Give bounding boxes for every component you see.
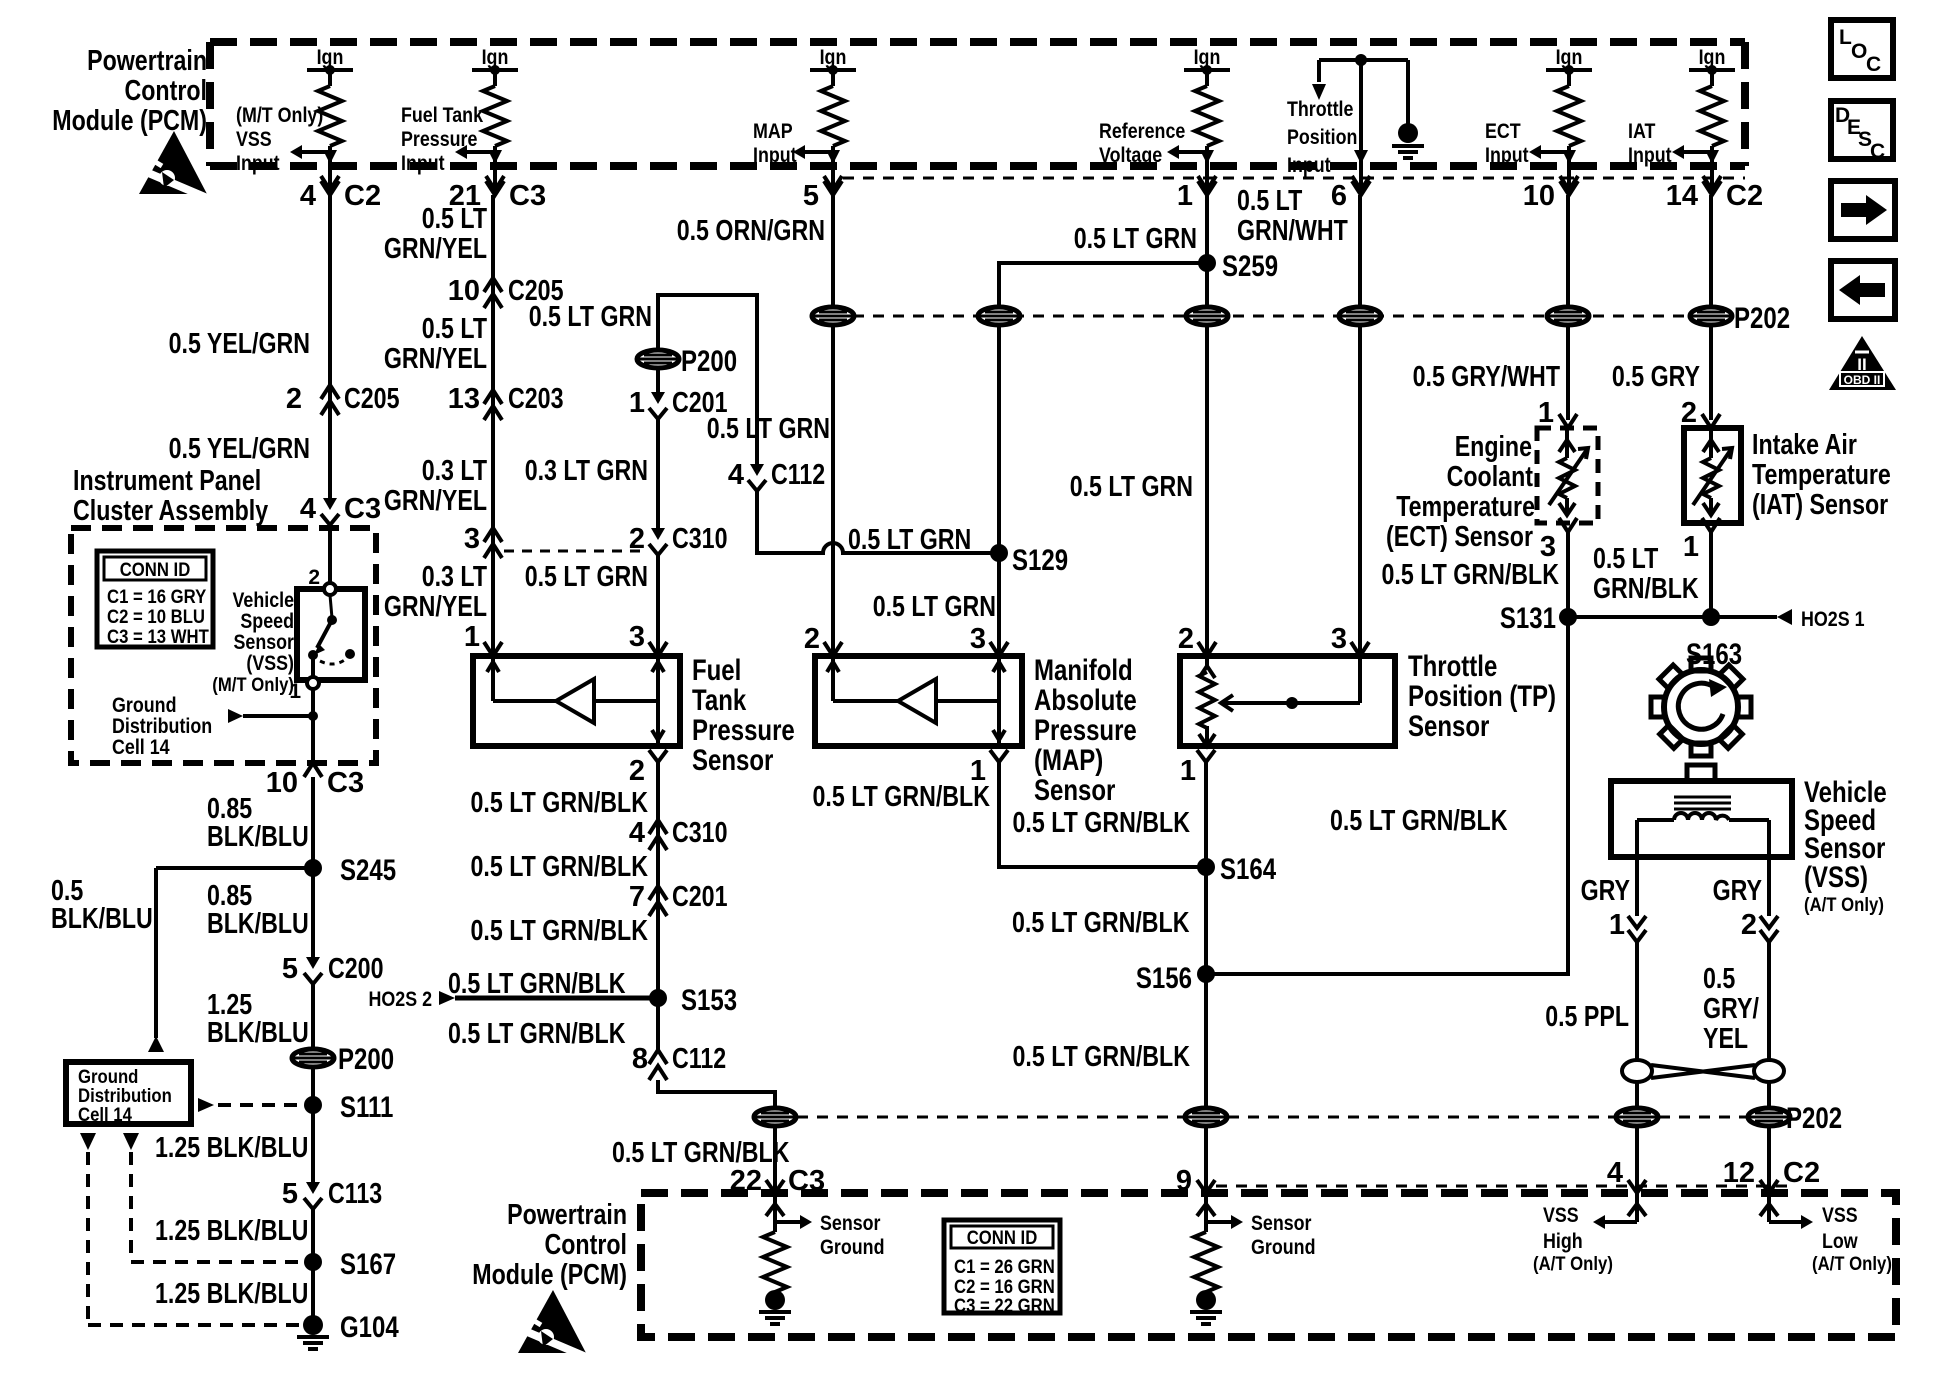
wire VSS switch pin 1 to IPC connector 10 C3 <box>311 689 315 763</box>
svg-text:GRN/YEL: GRN/YEL <box>384 343 487 375</box>
svg-text:0.5 LT GRN/BLK: 0.5 LT GRN/BLK <box>448 968 626 1000</box>
connector 5 C200 <box>282 953 384 985</box>
svg-text:Speed: Speed <box>240 610 294 633</box>
svg-text:4: 4 <box>300 180 316 212</box>
pass-through grommet P202 (VSS high) <box>1616 1108 1658 1126</box>
svg-text:2: 2 <box>629 523 645 555</box>
wire label 0.5 GRY/YEL <box>1703 963 1759 1055</box>
svg-text:1: 1 <box>1609 909 1625 941</box>
pass-through grommet at x=1360 (top row) <box>1339 307 1381 325</box>
PCM top label Powertrain Control Module (PCM) <box>52 45 207 137</box>
svg-text:2: 2 <box>629 755 645 787</box>
wire label 0.5 ORN/GRN <box>677 215 825 247</box>
wire FTP pin 2 down to HO2S2 splice S153 <box>656 762 660 998</box>
svg-text:Input: Input <box>401 152 445 175</box>
wire PCM pin 10 down to ECT sensor pin 1 <box>1566 195 1570 420</box>
svg-text:Distribution: Distribution <box>112 715 212 738</box>
pass-through grommet at x=833 (top row) <box>812 307 854 325</box>
svg-text:0.5 LT: 0.5 LT <box>1593 543 1659 575</box>
wire C200 to pass-through P200 <box>311 984 315 1049</box>
svg-text:2: 2 <box>286 383 302 415</box>
svg-text:C200: C200 <box>328 953 384 985</box>
svg-text:0.5 LT GRN/BLK: 0.5 LT GRN/BLK <box>1013 807 1191 839</box>
engine harness pass-through dashed line (bottom row) <box>797 1116 1747 1119</box>
svg-text:C1 = 26 GRN: C1 = 26 GRN <box>954 1257 1055 1278</box>
VSS connector pin 1 <box>1609 909 1646 942</box>
svg-text:GRN/WHT: GRN/WHT <box>1237 215 1348 247</box>
wire label 0.5 LT GRN/BLK (MAP return) <box>813 781 991 813</box>
pass-through grommet at x=1568 (top row) <box>1547 307 1589 325</box>
wire grommet to PCM pin 22 C3 <box>773 1126 777 1193</box>
FTP input name text <box>401 104 483 175</box>
wire S131 to S163 to HO2S1 arrow <box>1568 609 1792 625</box>
svg-text:C201: C201 <box>672 881 728 913</box>
svg-text:Throttle: Throttle <box>1287 98 1353 121</box>
wire label 0.5 LT GRN (above FTP pin 3) <box>525 561 648 593</box>
svg-text:0.3 LT: 0.3 LT <box>422 561 488 593</box>
svg-text:4: 4 <box>1607 1157 1623 1189</box>
svg-text:S259: S259 <box>1222 250 1278 283</box>
PCM pull-up resistor (ECT input) <box>1557 86 1581 146</box>
svg-text:4: 4 <box>629 817 645 849</box>
svg-text:GRN/YEL: GRN/YEL <box>384 485 487 517</box>
dashed wire ground distribution to G104 <box>88 1152 300 1325</box>
VSS Low input arrow inside PCM <box>1760 1193 1813 1229</box>
svg-text:Intake Air: Intake Air <box>1752 429 1857 461</box>
dashed wire ground distribution to S167 <box>131 1152 300 1262</box>
svg-text:Throttle: Throttle <box>1408 650 1497 683</box>
svg-text:Input: Input <box>1287 154 1331 177</box>
svg-text:5: 5 <box>282 953 298 985</box>
svg-text:MAP: MAP <box>753 120 793 143</box>
svg-text:High: High <box>1543 1230 1583 1253</box>
VSS (A/T Only) title <box>1804 776 1887 916</box>
Throttle Position input node junction <box>1319 54 1408 66</box>
svg-text:G104: G104 <box>340 1311 399 1344</box>
wire PCM pin 14 C2 down to IAT sensor pin 2 <box>1709 195 1713 420</box>
svg-text:1: 1 <box>1180 755 1196 787</box>
svg-text:1: 1 <box>1177 180 1193 212</box>
pass-through label P202 (top row) <box>1734 302 1790 335</box>
svg-text:5: 5 <box>282 1178 298 1210</box>
svg-text:C3 = 13 WHT: C3 = 13 WHT <box>107 627 209 648</box>
svg-text:C3: C3 <box>509 180 546 212</box>
wire label 1.25 BLK/BLU (above S167) <box>155 1215 308 1247</box>
wire label 0.5 LT GRN (ref voltage lower) <box>1070 471 1193 503</box>
sensor ground resistor and arrow (pin 9) <box>1190 1193 1243 1324</box>
svg-text:Ground: Ground <box>112 694 177 717</box>
svg-text:0.5 LT GRN/BLK: 0.5 LT GRN/BLK <box>471 787 649 819</box>
svg-text:C2 = 16 GRN: C2 = 16 GRN <box>954 1277 1055 1298</box>
pass-through grommet P200 (left column) <box>292 1043 394 1076</box>
wire label 0.5 LT GRN/YEL (segment 2) <box>384 313 487 375</box>
VSS sensor neck <box>1687 765 1715 781</box>
svg-text:0.5 LT: 0.5 LT <box>422 313 488 345</box>
svg-text:1: 1 <box>1683 531 1699 563</box>
svg-text:ECT: ECT <box>1485 120 1521 143</box>
svg-text:(A/T Only): (A/T Only) <box>1804 895 1884 916</box>
wire label 0.3 LT GRN <box>525 455 648 487</box>
svg-text:Ground: Ground <box>820 1236 885 1259</box>
wire PCM pin 4 C2 down to IPC connector 4 C3 <box>328 195 332 498</box>
svg-text:0.5 LT GRN/BLK: 0.5 LT GRN/BLK <box>813 781 991 813</box>
svg-text:Sensor: Sensor <box>820 1212 881 1235</box>
svg-text:0.5 LT GRN/BLK: 0.5 LT GRN/BLK <box>471 915 649 947</box>
wire P200 to connector 1 C201 <box>656 368 660 392</box>
wire label 0.3 LT GRN/YEL (segment 4) <box>384 561 487 623</box>
svg-text:HO2S 1: HO2S 1 <box>1801 608 1865 631</box>
wire P200 to splice S111 <box>311 1067 315 1105</box>
svg-text:0.3 LT: 0.3 LT <box>422 455 488 487</box>
IAT sensor pin 2 terminal <box>1681 397 1720 429</box>
svg-text:0.5 LT GRN/BLK: 0.5 LT GRN/BLK <box>612 1137 790 1169</box>
PCM connector face dashed line (bottom) <box>1216 1185 1796 1188</box>
splice S156 <box>1136 962 1215 995</box>
inline connector 10 C205 <box>448 275 564 308</box>
svg-text:(VSS): (VSS) <box>1804 861 1868 894</box>
svg-text:VSS: VSS <box>1822 1204 1858 1227</box>
svg-text:0.5 LT GRN: 0.5 LT GRN <box>1074 223 1197 255</box>
svg-text:OBD II: OBD II <box>1844 373 1881 387</box>
svg-text:Absolute: Absolute <box>1034 684 1137 717</box>
wire MAP pin 1 to splice S164 <box>999 762 1206 867</box>
wire label 0.5 LT GRN/BLK (IAT return) <box>1593 543 1699 605</box>
svg-text:BLK/BLU: BLK/BLU <box>207 821 309 853</box>
svg-text:(ECT) Sensor: (ECT) Sensor <box>1386 521 1533 553</box>
svg-text:0.5 LT GRN: 0.5 LT GRN <box>873 591 996 623</box>
wire S245 to connector 5 C200 <box>311 868 315 957</box>
svg-text:5: 5 <box>803 180 819 212</box>
svg-text:3: 3 <box>1331 623 1347 655</box>
wire S111 to connector 5 C113 <box>311 1105 315 1182</box>
svg-text:Distribution: Distribution <box>78 1086 172 1107</box>
svg-text:Engine: Engine <box>1455 431 1532 463</box>
wire VSS pin 2 to twisted pair <box>1767 942 1771 1060</box>
Ign node tick and junction (VSS) <box>307 65 353 86</box>
svg-text:Cell 14: Cell 14 <box>78 1105 132 1126</box>
pass-through grommet P202 (VSS low) <box>1748 1102 1842 1135</box>
svg-text:Powertrain: Powertrain <box>507 1199 627 1231</box>
svg-text:14: 14 <box>1666 180 1698 212</box>
svg-text:Fuel: Fuel <box>692 654 741 687</box>
svg-text:Voltage: Voltage <box>1099 144 1162 167</box>
Ign feed label for MAP input <box>820 46 847 69</box>
svg-text:C1 = 16 GRY: C1 = 16 GRY <box>107 587 207 608</box>
VSS input arrow inside PCM <box>290 145 330 162</box>
svg-text:0.5 LT GRN/BLK: 0.5 LT GRN/BLK <box>1012 907 1190 939</box>
ground G104 <box>297 1311 399 1349</box>
svg-text:10: 10 <box>448 275 480 307</box>
PCM pull-up resistor (FTP input) <box>483 86 507 146</box>
FTP input arrow inside PCM <box>455 145 495 162</box>
inline connector 1 C201 <box>629 387 728 419</box>
IAT sensor title <box>1752 429 1891 521</box>
splice S164 <box>1197 853 1276 886</box>
PCM pin 12 C2 terminal (VSS low) <box>1723 1157 1820 1193</box>
splice S111 <box>304 1091 393 1124</box>
wire label 1.25 BLK/BLU (above G104) <box>155 1278 308 1310</box>
connector 5 C113 <box>282 1178 382 1210</box>
svg-text:S131: S131 <box>1500 602 1556 635</box>
svg-text:(A/T Only): (A/T Only) <box>1812 1254 1892 1275</box>
wire C310 to FTP sensor pin 3 <box>656 555 660 656</box>
svg-text:HO2S 2: HO2S 2 <box>369 988 433 1011</box>
dashed reference arrow from Ground Distribution box to S111 <box>198 1098 304 1112</box>
wire C201 to connector 2 C310 <box>656 419 660 528</box>
svg-text:C3: C3 <box>327 767 364 799</box>
svg-text:P200: P200 <box>338 1043 394 1076</box>
Manifold Absolute Pressure (MAP) Sensor box <box>815 656 1022 746</box>
CONN ID table (PCM bottom) <box>944 1220 1060 1317</box>
wire S167 to ground G104 <box>311 1262 315 1325</box>
ECT input arrow inside PCM <box>1529 145 1569 162</box>
FTP sensor internal amplifier symbol <box>487 656 664 746</box>
svg-text:10: 10 <box>266 767 298 799</box>
wire label 0.5 LT GRN/BLK (FTP seg 1) <box>471 787 649 819</box>
svg-text:C113: C113 <box>328 1178 382 1210</box>
wire label 0.85 BLK/BLU (upper) <box>207 793 309 853</box>
PCM bottom label Powertrain Control Module (PCM) <box>472 1199 627 1291</box>
svg-text:1: 1 <box>1538 397 1554 429</box>
svg-text:0.5 LT GRN: 0.5 LT GRN <box>707 413 830 445</box>
wire twisted pair to P202 grommets <box>1637 1082 1769 1108</box>
svg-text:S156: S156 <box>1136 962 1192 995</box>
wire label 0.5 LT GRN/BLK (FTP seg 3) <box>471 915 649 947</box>
svg-text:Cluster Assembly: Cluster Assembly <box>73 495 268 527</box>
Instrument Panel Cluster Assembly title <box>73 465 268 527</box>
splice S163 <box>1686 608 1742 671</box>
connector 10 C3 out of IPC box <box>266 763 364 799</box>
pass-through grommet P200 (center) <box>637 345 737 378</box>
PCM pin 10 terminal <box>1523 180 1578 212</box>
wire label 0.5 LT GRN/BLK (above pin 9) <box>1013 1041 1191 1073</box>
svg-text:0.5 GRY: 0.5 GRY <box>1612 361 1700 393</box>
svg-text:10: 10 <box>1523 180 1555 212</box>
wire label 0.5 LT GRN (left of S129) <box>848 524 971 556</box>
wire label 0.5 LT GRN (center, above MAP pin 3) <box>873 591 996 623</box>
svg-text:C310: C310 <box>672 523 728 555</box>
svg-text:S164: S164 <box>1220 853 1276 886</box>
wire label 1.25 BLK/BLU (above C113) <box>155 1132 308 1164</box>
HO2S 1 reference label <box>1801 608 1865 631</box>
svg-text:Instrument Panel: Instrument Panel <box>73 465 261 497</box>
ESD sensitivity symbol bottom <box>518 1290 591 1359</box>
svg-text:0.5 LT GRN/BLK: 0.5 LT GRN/BLK <box>471 851 649 883</box>
Throttle Position input arrow stub <box>1312 60 1326 100</box>
PCM pin 1 terminal <box>1177 180 1216 212</box>
wire label 0.5 LT GRN/BLK (S131 bus) <box>1330 805 1508 837</box>
svg-text:7: 7 <box>629 881 645 913</box>
wire label GRY (right) <box>1713 875 1762 907</box>
wire label 0.5 LT GRN/BLK (above pin 22) <box>612 1137 790 1169</box>
inline connector 2 C205 on VSS wire <box>286 383 400 415</box>
svg-text:S129: S129 <box>1012 544 1068 577</box>
wire P202 to PCM pin 12 C2 (VSS low) <box>1767 1126 1771 1193</box>
PCM pin 21 C3 terminal <box>449 180 546 212</box>
wire label 0.5 LT GRN (above P200) <box>529 301 652 333</box>
svg-text:4: 4 <box>300 493 316 525</box>
wire label 0.5 LT GRN/BLK (below S153) <box>448 1018 626 1050</box>
svg-text:0.5 ORN/GRN: 0.5 ORN/GRN <box>677 215 825 247</box>
wire bridge from P200 over to 4 C112 <box>658 295 757 464</box>
svg-text:IAT: IAT <box>1628 120 1656 143</box>
wire label 0.5 BLK/BLU (branch) <box>51 875 153 935</box>
svg-text:(A/T Only): (A/T Only) <box>1533 1254 1613 1275</box>
splice S131 <box>1500 602 1577 635</box>
ECT sensor title <box>1386 431 1535 553</box>
svg-text:Sensor: Sensor <box>1034 774 1116 807</box>
wire label 0.5 GRY <box>1612 361 1700 393</box>
next page arrow icon <box>1831 181 1895 239</box>
wire label 0.5 YEL/GRN (lower) <box>169 433 310 465</box>
wire label 0.3 LT GRN/YEL (segment 3) <box>384 455 487 517</box>
TP sensor pin 2 terminal <box>1178 623 1216 656</box>
svg-text:C112: C112 <box>672 1043 726 1075</box>
svg-text:Input: Input <box>1628 144 1672 167</box>
svg-text:Cell 14: Cell 14 <box>112 736 170 759</box>
svg-text:C2 = 10 BLU: C2 = 10 BLU <box>107 607 205 628</box>
wire C112 jog right down to PCM pin 22 C3 <box>658 1080 775 1108</box>
svg-text:Input: Input <box>753 144 797 167</box>
Ign node tick and junction (ECT) <box>1546 65 1592 86</box>
PCM pin 6 terminal <box>1331 180 1370 212</box>
Ign feed label for VSS input <box>317 46 344 69</box>
engine harness pass-through dashed line P202 (top row) <box>833 315 1712 318</box>
svg-text:Sensor: Sensor <box>692 744 774 777</box>
inline connector 3 (to C310 jumper) <box>464 523 502 558</box>
wire label 0.5 PPL <box>1545 1001 1629 1033</box>
svg-text:0.5 LT GRN/BLK: 0.5 LT GRN/BLK <box>1382 559 1560 591</box>
PCM connector face dashed line (top) <box>843 177 1745 180</box>
svg-text:Control: Control <box>125 75 208 107</box>
wire VSS coil left lead down to pin 1 <box>1635 857 1639 916</box>
connector 4 C3 into Instrument Panel Cluster <box>300 493 381 525</box>
VSS connector pin 2 <box>1741 909 1778 942</box>
svg-text:2: 2 <box>308 566 320 589</box>
FTP sensor title <box>692 654 795 777</box>
svg-text:Pressure: Pressure <box>692 714 795 747</box>
Ign node tick and junction (FTP) <box>472 65 518 86</box>
wire S153 to connector 8 C112 <box>656 998 660 1050</box>
MAP sensor pin 2 terminal <box>804 623 842 656</box>
PCM pull-up resistor (IAT input) <box>1700 86 1724 146</box>
wire label 0.5 GRY/WHT <box>1413 361 1561 393</box>
svg-text:Temperature: Temperature <box>1396 491 1535 523</box>
wire label 0.5 LT GRN/BLK (FTP seg 2) <box>471 851 649 883</box>
svg-text:Input: Input <box>236 152 280 175</box>
svg-text:C310: C310 <box>672 817 728 849</box>
svg-text:(M/T Only): (M/T Only) <box>212 675 294 696</box>
svg-text:GRY: GRY <box>1581 875 1630 907</box>
svg-text:Manifold: Manifold <box>1034 654 1133 687</box>
svg-text:0.5 LT: 0.5 LT <box>1237 185 1303 217</box>
svg-text:(MAP): (MAP) <box>1034 744 1103 777</box>
svg-text:2: 2 <box>804 623 820 655</box>
wire label GRY (left) <box>1581 875 1630 907</box>
FTP sensor pin 2 terminal <box>629 750 667 787</box>
svg-text:BLK/BLU: BLK/BLU <box>207 908 309 940</box>
wire label 0.5 LT GRN/BLK (HO2S2 wire) <box>448 968 626 1000</box>
svg-text:Module (PCM): Module (PCM) <box>52 105 207 137</box>
svg-text:GRN/YEL: GRN/YEL <box>384 591 487 623</box>
wire PCM pin 6 down to TP sensor pin 3 <box>1358 195 1362 656</box>
wire IAT input through PCM connector <box>1703 150 1721 195</box>
Ign feed label for REF input <box>1194 46 1221 69</box>
svg-text:0.5 LT GRN: 0.5 LT GRN <box>848 524 971 556</box>
svg-text:Ground: Ground <box>1251 1236 1316 1259</box>
svg-text:0.5 LT GRN/BLK: 0.5 LT GRN/BLK <box>448 1018 626 1050</box>
svg-text:0.5 LT GRN/BLK: 0.5 LT GRN/BLK <box>1013 1041 1191 1073</box>
OBD II symbol <box>1829 336 1896 390</box>
PCM pin 9 terminal <box>1176 1165 1215 1197</box>
svg-text:C2: C2 <box>344 180 381 212</box>
wire label 0.5 LT GRN/WHT <box>1237 185 1348 247</box>
wire TP pin 1 down to PCM pin 9 (sensor ground) <box>1204 762 1208 1193</box>
pass-through grommet on sensor ground wire (center) <box>1185 1108 1227 1126</box>
svg-text:C2: C2 <box>1726 180 1763 212</box>
wire C112 down and right to splice S129 (hops over MAP wire) <box>757 491 999 553</box>
wire S131 down and left to splice S156 (sensor ground bus) <box>1206 617 1568 974</box>
MAP sensor title <box>1034 654 1137 807</box>
svg-text:Low: Low <box>1822 1230 1858 1253</box>
Ground Distribution Cell 14 box (solid) <box>66 1062 191 1126</box>
Throttle Position (TP) Sensor box <box>1180 656 1395 746</box>
PCM pull-up resistor (REF input) <box>1195 86 1219 146</box>
wire label 0.5 YEL/GRN (upper) <box>169 328 310 360</box>
svg-text:3: 3 <box>464 523 480 555</box>
svg-text:P202: P202 <box>1786 1102 1842 1135</box>
svg-text:1: 1 <box>629 387 645 419</box>
wire P202 to PCM pin 4 (VSS high) <box>1635 1126 1639 1193</box>
inline connector 8 C112 <box>632 1043 726 1080</box>
ECT sensor pin 3 terminal <box>1540 518 1577 563</box>
Instrument Panel Cluster Assembly dashed box <box>71 528 376 763</box>
svg-text:Sensor: Sensor <box>1251 1212 1312 1235</box>
pass-through grommet at x=999 (top row) <box>978 307 1020 325</box>
svg-text:(M/T Only): (M/T Only) <box>236 104 323 127</box>
Ign feed label for FTP input <box>482 46 509 69</box>
splice S129 <box>990 544 1068 577</box>
svg-text:Tank: Tank <box>692 684 746 717</box>
Ign node tick and junction (IAT) <box>1689 65 1735 86</box>
Vehicle Speed Sensor (VSS) switch box <box>289 583 365 703</box>
inline connector 13 C203 <box>448 383 564 420</box>
svg-text:0.5 LT GRN: 0.5 LT GRN <box>1070 471 1193 503</box>
wire IAT pin 1 to splice S163 <box>1709 532 1713 617</box>
svg-text:1.25 BLK/BLU: 1.25 BLK/BLU <box>155 1132 308 1164</box>
svg-text:2: 2 <box>1741 909 1757 941</box>
svg-text:0.5 YEL/GRN: 0.5 YEL/GRN <box>169 433 310 465</box>
ESD sensitivity symbol top-left <box>139 131 212 200</box>
wire IPC 10 C3 down to splice S245 <box>311 777 315 868</box>
wire VSS input through PCM connector <box>321 150 339 195</box>
ECT sensor pin 1 terminal <box>1538 397 1577 429</box>
connector 4 C112 on reference branch <box>728 459 825 491</box>
svg-text:Fuel Tank: Fuel Tank <box>401 104 483 127</box>
pass-through grommet on sensor ground wire (left) <box>754 1108 796 1126</box>
wire C113 to splice S167 <box>311 1209 315 1262</box>
VSS reluctor gear with rotation arrow <box>1651 658 1751 756</box>
TP sensor pin 1 terminal <box>1180 750 1215 787</box>
svg-text:8: 8 <box>632 1043 648 1075</box>
REF input arrow inside PCM <box>1167 145 1207 162</box>
splice S167 <box>304 1248 396 1281</box>
svg-text:C203: C203 <box>508 383 564 415</box>
wire into VSS switch pin 2 <box>308 528 330 589</box>
FTP sensor pin 1 terminal <box>464 621 502 656</box>
svg-text:0.5 LT GRN: 0.5 LT GRN <box>529 301 652 333</box>
svg-text:Module (PCM): Module (PCM) <box>472 1259 627 1291</box>
